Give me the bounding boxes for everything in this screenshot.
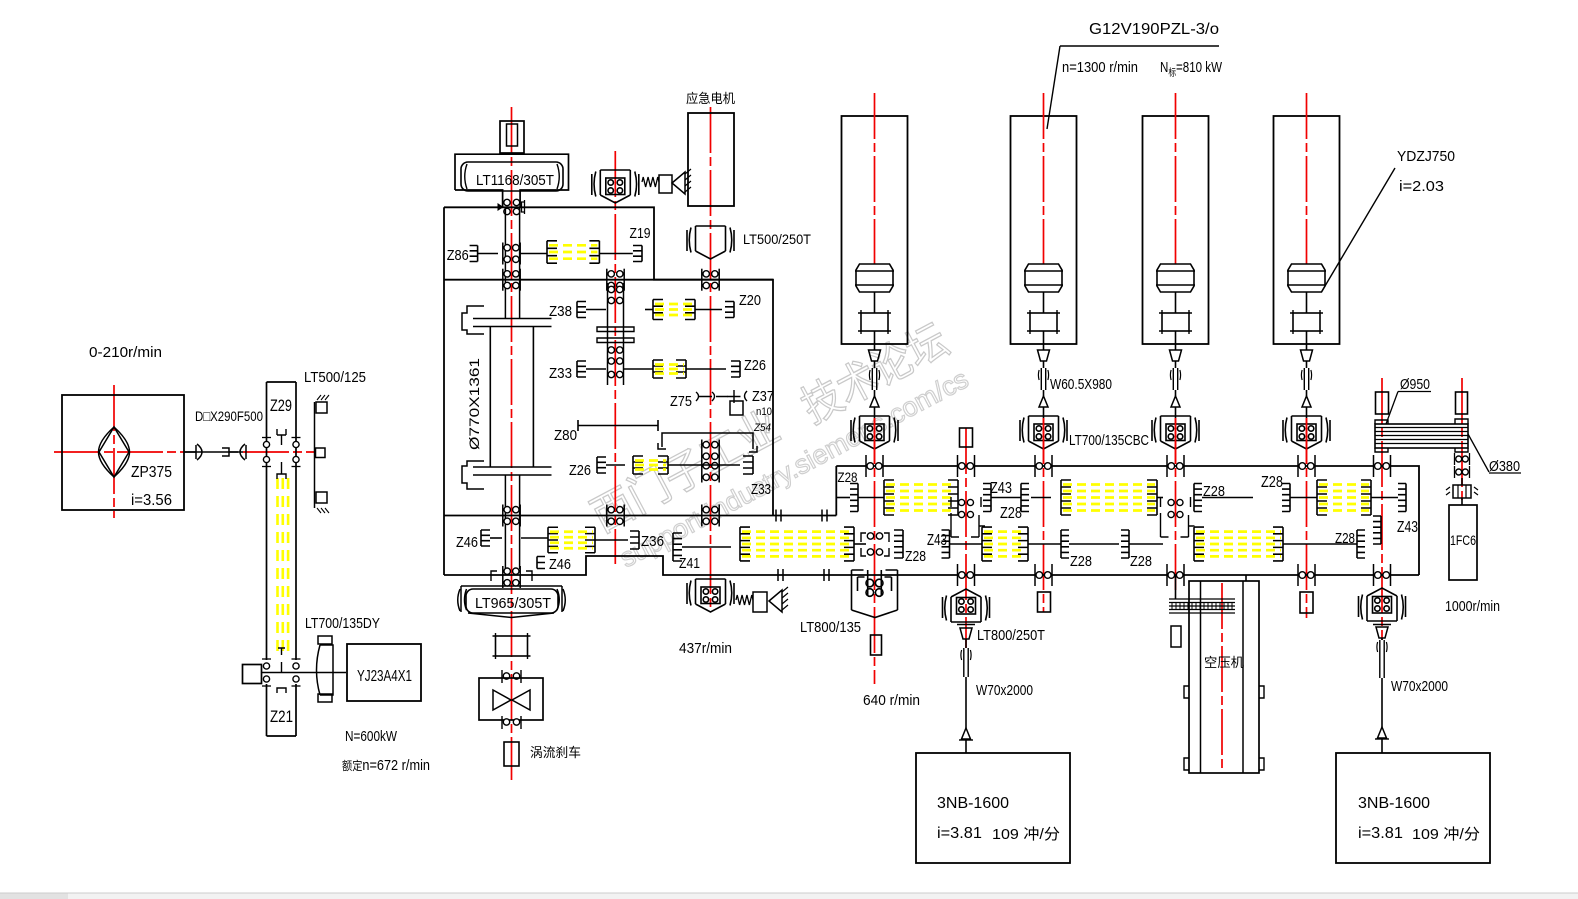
svg-text:Z28: Z28 (1130, 553, 1152, 570)
svg-text:Z37: Z37 (752, 388, 774, 405)
svg-text:LT500/125: LT500/125 (304, 369, 366, 386)
svg-text:Z26: Z26 (744, 357, 766, 374)
svg-text:Z21: Z21 (270, 707, 293, 726)
svg-text:1000r/min: 1000r/min (1445, 598, 1500, 615)
svg-text:空压机: 空压机 (1204, 655, 1244, 670)
svg-text:109 冲/分: 109 冲/分 (992, 826, 1060, 843)
svg-text:LT700/135DY: LT700/135DY (305, 615, 380, 632)
svg-text:G12V190PZL-3/o: G12V190PZL-3/o (1089, 21, 1219, 38)
svg-text:LT800/135: LT800/135 (800, 619, 861, 636)
svg-text:YDZJ750: YDZJ750 (1397, 148, 1455, 165)
svg-text:LT700/135CBC: LT700/135CBC (1069, 432, 1149, 449)
svg-text:437r/min: 437r/min (679, 640, 732, 657)
svg-text:Z46: Z46 (456, 534, 478, 551)
svg-text:Z28: Z28 (1335, 530, 1355, 547)
svg-text:3NB-1600: 3NB-1600 (937, 795, 1009, 812)
svg-text:W70x2000: W70x2000 (1391, 678, 1448, 695)
svg-text:i=2.03: i=2.03 (1399, 178, 1444, 195)
svg-text:i=3.56: i=3.56 (131, 492, 172, 509)
svg-text:N=600kW: N=600kW (345, 728, 398, 745)
svg-text:Z28: Z28 (1000, 505, 1022, 522)
svg-text:Z36: Z36 (641, 533, 664, 550)
svg-text:Z26: Z26 (569, 462, 591, 479)
svg-text:Z75: Z75 (670, 393, 692, 410)
svg-text:i=3.81: i=3.81 (937, 825, 982, 842)
svg-text:D□X290F500: D□X290F500 (195, 408, 263, 424)
svg-text:LT500/250T: LT500/250T (743, 231, 811, 247)
svg-text:640 r/min: 640 r/min (863, 692, 920, 709)
svg-text:Z86: Z86 (447, 247, 469, 264)
svg-text:Z20: Z20 (739, 292, 761, 309)
svg-text:LT1168/305T: LT1168/305T (476, 172, 554, 189)
svg-text:LT800/250T: LT800/250T (977, 627, 1045, 644)
svg-text:W60.5X980: W60.5X980 (1050, 376, 1112, 393)
svg-text:涡流刹车: 涡流刹车 (530, 745, 581, 760)
svg-text:Z46: Z46 (549, 556, 571, 573)
svg-text:Z28: Z28 (905, 548, 926, 565)
svg-text:Z33: Z33 (751, 481, 771, 498)
svg-text:LT965/305T: LT965/305T (475, 595, 551, 612)
svg-text:Ø770X1361: Ø770X1361 (466, 358, 482, 450)
svg-text:3NB-1600: 3NB-1600 (1358, 795, 1430, 812)
svg-text:Z28: Z28 (838, 469, 858, 485)
svg-text:n=1300 r/min: n=1300 r/min (1062, 59, 1138, 76)
svg-text:Z43: Z43 (927, 532, 947, 549)
svg-text:1FC6: 1FC6 (1450, 532, 1476, 548)
svg-text:Z19: Z19 (630, 225, 651, 242)
svg-text:Z80: Z80 (554, 427, 577, 444)
svg-text:Z28: Z28 (1261, 474, 1283, 491)
svg-text:n10: n10 (756, 406, 772, 418)
svg-text:W70x2000: W70x2000 (976, 682, 1033, 699)
svg-text:应急电机: 应急电机 (686, 91, 735, 106)
svg-text:Z33: Z33 (549, 365, 572, 382)
svg-text:Z29: Z29 (270, 396, 292, 415)
svg-text:Z41: Z41 (679, 555, 700, 572)
svg-text:额定n=672 r/min: 额定n=672 r/min (342, 757, 430, 774)
svg-text:ZP375: ZP375 (131, 464, 172, 481)
svg-text:109 冲/分: 109 冲/分 (1412, 826, 1480, 843)
svg-text:Z43: Z43 (990, 480, 1012, 497)
svg-text:Z28: Z28 (1070, 553, 1092, 570)
svg-text:0-210r/min: 0-210r/min (89, 344, 162, 361)
svg-text:Z38: Z38 (549, 303, 572, 320)
svg-text:i=3.81: i=3.81 (1358, 825, 1403, 842)
svg-text:Z43: Z43 (1397, 519, 1418, 536)
svg-text:Z54: Z54 (753, 422, 771, 434)
svg-text:Ø950: Ø950 (1400, 376, 1430, 393)
svg-text:YJ23A4X1: YJ23A4X1 (357, 668, 412, 685)
